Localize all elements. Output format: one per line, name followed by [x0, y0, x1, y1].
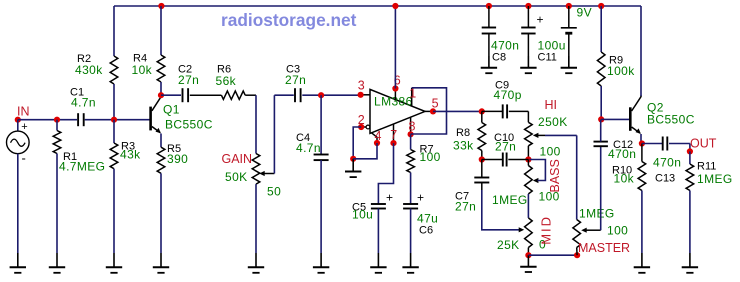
wire input line	[18, 119, 150, 121]
transistor Q2 BC550C	[630, 95, 694, 134]
capacitor C5 10u	[352, 191, 393, 222]
svg-text:470n: 470n	[653, 156, 681, 170]
wire C2 to R6	[190, 94, 222, 96]
capacitor C4 4.7n	[296, 95, 329, 253]
wire source to ground	[17, 154, 19, 253]
node MID bottom	[525, 252, 531, 258]
ground R11	[682, 253, 698, 273]
svg-text:Q1: Q1	[163, 103, 180, 117]
ground C6	[402, 253, 418, 273]
wire R11 to ground	[689, 191, 691, 254]
svg-text:R8: R8	[456, 127, 470, 139]
label MID	[539, 215, 554, 245]
node rail R9	[598, 3, 604, 9]
node Q2 base junction	[598, 116, 604, 122]
ground C8	[481, 56, 497, 73]
potentiometer HI 250K	[525, 98, 568, 160]
source G1 AC input	[6, 121, 29, 165]
ground GAIN	[248, 253, 264, 273]
svg-text:BC550C: BC550C	[165, 118, 213, 132]
svg-text:8: 8	[409, 120, 416, 134]
svg-text:10k: 10k	[132, 63, 153, 77]
svg-text:MID: MID	[539, 215, 554, 245]
svg-text:-: -	[22, 151, 26, 166]
node R8 C10 junction	[479, 156, 485, 162]
svg-text:HI: HI	[545, 98, 558, 112]
svg-text:470n: 470n	[491, 39, 519, 53]
svg-text:R11: R11	[697, 161, 716, 173]
wire pin7 to C5	[378, 143, 393, 204]
svg-text:4.7n: 4.7n	[296, 141, 321, 155]
node rail battery	[566, 3, 572, 9]
svg-text:27n: 27n	[495, 140, 516, 154]
capacitor C11 100u	[521, 6, 566, 64]
ground R10	[634, 253, 650, 273]
svg-text:C13: C13	[655, 173, 675, 185]
potentiometer MID 25K	[497, 218, 546, 255]
wire MID to MASTER bottom	[528, 254, 577, 256]
svg-text:100: 100	[540, 145, 561, 159]
svg-text:10k: 10k	[614, 172, 635, 186]
wire IN to source	[17, 120, 19, 131]
wire pins 1-8 loop	[411, 88, 447, 134]
ground R3	[106, 253, 122, 273]
svg-text:+: +	[537, 13, 544, 27]
pin 3 stub	[358, 79, 371, 98]
wire pin2 to ground	[353, 127, 361, 159]
svg-text:10u: 10u	[352, 208, 373, 222]
svg-text:3: 3	[358, 79, 365, 93]
wire rail to R2	[113, 6, 115, 56]
wire C5 to ground	[377, 209, 379, 254]
svg-text:33k: 33k	[453, 139, 474, 153]
svg-text:LM386: LM386	[374, 95, 413, 109]
svg-text:4.7MEG: 4.7MEG	[59, 160, 105, 174]
svg-text:470n: 470n	[608, 147, 636, 161]
capacitor C6 47u	[403, 191, 438, 237]
wire rail to Q2 collector	[640, 6, 642, 96]
svg-text:radiostorage.net: radiostorage.net	[221, 10, 357, 30]
wire R2 to base node	[113, 84, 115, 120]
node HI bottom junction	[525, 156, 531, 162]
wire C3 to pin3	[302, 94, 360, 96]
svg-text:5: 5	[432, 97, 439, 111]
wire Q1 emitter to R5	[160, 134, 162, 148]
resistor R5 390	[157, 143, 188, 253]
svg-text:250K: 250K	[538, 115, 568, 129]
svg-text:C11: C11	[538, 52, 557, 64]
wire collector to C2	[161, 94, 181, 96]
node OUT terminal	[687, 137, 717, 155]
resistor R7 100	[407, 134, 441, 172]
resistor R9 100k	[597, 6, 635, 119]
potentiometer MASTER 1MEG	[573, 207, 630, 256]
svg-text:IN: IN	[17, 105, 30, 119]
node rail R4	[158, 3, 164, 9]
svg-text:25K: 25K	[497, 238, 520, 252]
svg-text:100: 100	[420, 150, 441, 164]
svg-text:56k: 56k	[216, 74, 237, 88]
node R1 junction	[54, 117, 60, 123]
svg-text:+: +	[21, 121, 27, 133]
svg-text:4.7n: 4.7n	[71, 96, 96, 110]
wire C7 to MID wiper	[482, 190, 524, 232]
node rail C8	[486, 3, 492, 9]
title radiostorage.net	[221, 10, 357, 30]
svg-text:100u: 100u	[538, 39, 566, 53]
ground source	[10, 253, 26, 273]
node pin2-4 ground junction	[350, 156, 356, 162]
resistor R11 1MEG	[686, 151, 733, 190]
svg-text:1MEG: 1MEG	[579, 207, 615, 221]
svg-text:100: 100	[607, 224, 628, 238]
pin 1 stub	[409, 87, 416, 107]
capacitor C1	[70, 87, 96, 127]
resistor R6 56k	[216, 64, 246, 100]
node C4 junction	[318, 92, 324, 98]
wire HI wiper to MASTER	[545, 135, 577, 219]
wire C6 to ground	[410, 209, 412, 254]
ground C5	[370, 253, 386, 273]
potentiometer GAIN 50K	[222, 152, 282, 199]
wire MASTER wiper to C12	[600, 146, 602, 230]
svg-text:4: 4	[375, 129, 382, 143]
svg-text:BASS: BASS	[548, 159, 562, 192]
svg-text:50K: 50K	[225, 170, 248, 184]
resistor R4 10k	[132, 6, 165, 95]
pin 7 stub	[390, 124, 397, 146]
capacitor C7 27n	[455, 160, 489, 214]
node IN terminal	[15, 105, 30, 123]
ground R5	[153, 253, 169, 273]
svg-text:+: +	[386, 191, 393, 205]
resistor R8 33k	[453, 111, 486, 159]
wire +9V rail	[114, 5, 641, 7]
wire GAIN wiper to C3	[274, 95, 293, 173]
resistor R2 430k	[75, 53, 118, 84]
capacitor C9 470p	[482, 80, 529, 119]
ground LM386	[345, 159, 361, 177]
svg-text:+: +	[417, 191, 424, 205]
svg-text:C6: C6	[419, 225, 433, 237]
node Q1 collector	[158, 92, 164, 98]
transistor Q1 BC550C	[151, 95, 213, 133]
svg-text:470p: 470p	[494, 88, 522, 102]
svg-text:27n: 27n	[455, 200, 476, 214]
wire Q2 emitter down	[640, 134, 642, 144]
svg-text:1MEG: 1MEG	[492, 193, 528, 207]
pin 6 stub	[392, 74, 401, 100]
pin 2 stub	[358, 113, 370, 130]
svg-text:27n: 27n	[178, 73, 199, 87]
wire pin5 to R8 node	[433, 110, 482, 112]
pin 4 stub	[372, 129, 382, 146]
svg-text:430k: 430k	[75, 63, 103, 77]
wire pin4 to ground	[353, 143, 377, 159]
resistor R1 4.7MEG	[53, 120, 105, 253]
wire BASS wiper loop	[530, 160, 546, 181]
node MASTER bottom	[574, 252, 580, 258]
svg-text:100k: 100k	[607, 64, 635, 78]
ground R1	[49, 253, 65, 273]
svg-text:9V: 9V	[577, 6, 592, 20]
svg-text:47u: 47u	[417, 212, 438, 226]
wire R7 to C6	[410, 173, 412, 205]
node rail pin6	[392, 3, 398, 9]
resistor R10 10k	[612, 144, 646, 191]
svg-text:390: 390	[167, 152, 188, 166]
wire R10 to ground	[641, 191, 643, 254]
svg-text:50: 50	[267, 185, 281, 199]
label BASS	[548, 159, 562, 192]
node rail C11	[525, 3, 531, 9]
potentiometer BASS 1MEG	[492, 160, 560, 208]
svg-text:MASTER: MASTER	[578, 241, 630, 255]
capacitor C10 27n	[482, 132, 529, 167]
node Q2 emitter junction	[639, 140, 645, 146]
svg-text:1MEG: 1MEG	[697, 172, 733, 186]
capacitor C12 470n	[594, 119, 637, 161]
node Q1 base junction	[111, 117, 117, 123]
svg-text:43k: 43k	[120, 148, 141, 162]
wire OUT corner	[689, 144, 691, 152]
wire R6 to GAIN pot	[245, 95, 256, 153]
wire BASS to MID	[527, 194, 529, 218]
ground C4	[313, 253, 329, 273]
svg-text:27n: 27n	[285, 73, 306, 87]
svg-text:7: 7	[390, 128, 397, 142]
resistor R3 43k	[110, 120, 141, 253]
svg-text:GAIN: GAIN	[222, 152, 253, 166]
pin 8 stub	[408, 118, 416, 138]
wire pin6 to rail	[394, 6, 396, 89]
wire GAIN bottom to ground	[255, 184, 257, 253]
wire base Q2	[601, 118, 629, 120]
capacitor C3 27n	[285, 64, 306, 103]
capacitor C2 27n	[178, 64, 199, 103]
svg-text:2: 2	[358, 113, 365, 127]
capacitor C13 470n	[642, 137, 690, 185]
pin 5 stub	[425, 97, 439, 115]
ground MID	[520, 255, 536, 272]
svg-text:C8: C8	[492, 52, 506, 64]
ground C11	[520, 56, 536, 73]
ground battery	[561, 56, 577, 73]
battery B1 9V	[561, 6, 592, 57]
node output junction	[479, 108, 485, 114]
capacitor C8 470n	[482, 6, 520, 64]
svg-text:OUT: OUT	[690, 137, 717, 151]
op-amp U1 LM386	[370, 89, 425, 133]
svg-text:BC550C: BC550C	[647, 113, 695, 127]
